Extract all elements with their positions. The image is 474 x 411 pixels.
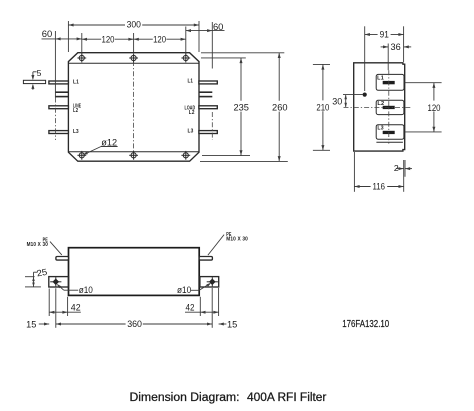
svg-text:60: 60	[213, 22, 224, 33]
svg-text:210: 210	[316, 102, 329, 113]
dim 42 left extension lines	[48, 289, 50, 317]
terminal block L3 side	[376, 125, 404, 140]
svg-text:360: 360	[127, 318, 142, 329]
svg-text:15: 15	[26, 318, 36, 329]
svg-text:ø12: ø12	[101, 137, 117, 147]
extension line from L1 block	[405, 82, 442, 84]
dim 116	[354, 186, 370, 188]
dim 42 right extension lines	[199, 297, 201, 316]
svg-text:120: 120	[102, 35, 115, 46]
front view: bottom mounting flange line	[69, 151, 199, 153]
stud face line / centerline left	[54, 31, 56, 98]
dim 36	[387, 44, 389, 71]
insulator block lines right	[199, 91, 212, 93]
mounting hole bottom-left	[79, 153, 84, 158]
svg-text:15: 15	[227, 318, 237, 329]
extension line from L3 block	[405, 131, 442, 133]
terminal stud L1 left	[49, 81, 69, 84]
insulator block lines left	[55, 91, 68, 93]
dim 91	[365, 34, 378, 36]
svg-text:M10 X 30: M10 X 30	[27, 242, 48, 248]
svg-text:260: 260	[272, 103, 288, 114]
mounting hole top-right	[183, 55, 188, 60]
terminal stud L2 right	[199, 106, 217, 109]
dim 15 left	[39, 323, 49, 325]
svg-text:L3: L3	[377, 126, 383, 132]
dim 15 right	[219, 323, 227, 325]
dim 42 left	[49, 311, 81, 313]
dim 116 extension line	[353, 152, 355, 192]
dim 210	[322, 64, 324, 100]
dim 2 ticks	[403, 160, 405, 192]
front view: top mounting flange line	[69, 62, 199, 64]
dim 260	[278, 53, 280, 101]
svg-text:L1: L1	[377, 75, 384, 81]
dim 235	[240, 58, 242, 101]
svg-text:25: 25	[36, 267, 48, 279]
side view: terminal cover bottom line	[376, 141, 403, 143]
svg-text:300: 300	[127, 20, 141, 31]
PE stud leader line	[343, 94, 363, 96]
terminal block L2 side	[376, 100, 404, 114]
dim 42 right	[185, 311, 219, 313]
mounting hole top-center	[131, 55, 136, 60]
bottom view: filter body	[69, 248, 200, 296]
svg-text:5: 5	[37, 68, 42, 78]
dim 300	[68, 24, 125, 26]
terminal stud L3 left	[49, 131, 69, 134]
dim 120 extension lines over holes	[81, 33, 83, 55]
busbar detail bar far left	[23, 80, 45, 83]
stud face line / centerline right	[211, 22, 213, 69]
svg-text:L2: L2	[189, 110, 195, 116]
svg-text:L3: L3	[188, 129, 194, 135]
dim 120 right segment	[134, 38, 153, 40]
svg-text:ø10: ø10	[79, 285, 93, 295]
terminal stud L2 left	[49, 106, 69, 109]
svg-text:ø10: ø10	[177, 285, 191, 295]
svg-text:L2: L2	[377, 101, 384, 107]
svg-text:120: 120	[428, 102, 441, 113]
dim 120 left segment	[82, 38, 101, 40]
svg-text:42: 42	[71, 303, 81, 313]
dim 210 extension lines	[313, 63, 330, 65]
mounting hole bottom-center	[131, 153, 136, 158]
mounting hole top-left	[79, 55, 84, 60]
mounting foot right	[200, 277, 219, 287]
side view vertical centerline	[388, 70, 390, 143]
svg-text:2: 2	[394, 163, 399, 173]
dim 60 right	[186, 30, 225, 32]
terminal stud L3 right	[199, 131, 217, 134]
PE stud right bottom view	[199, 257, 212, 261]
dim 235 extension lines	[201, 57, 246, 59]
svg-text:M10 X 30: M10 X 30	[226, 237, 248, 243]
side view: body outline with 2mm lip	[354, 63, 405, 151]
svg-text:42: 42	[186, 303, 195, 313]
terminal block L1 side	[376, 74, 404, 90]
svg-text:L2: L2	[73, 108, 78, 114]
terminal bar L1 side	[383, 81, 395, 84]
terminal bar L3 side	[383, 131, 395, 134]
svg-text:400A RFI Filter: 400A RFI Filter	[247, 390, 326, 404]
side view L2 horizontal centerline	[344, 106, 413, 108]
terminal bar L2 side	[383, 106, 395, 109]
dim 30	[345, 95, 347, 108]
PE stud dot	[363, 93, 367, 97]
svg-text:176FA132.10: 176FA132.10	[342, 319, 389, 330]
front view: filter box outline with chamfered corners	[68, 53, 199, 162]
svg-text:116: 116	[372, 181, 385, 192]
svg-text:30: 30	[332, 95, 342, 106]
mounting hole bottom-right	[183, 153, 188, 158]
front view: vertical centerline	[133, 61, 135, 152]
dim 300 extension lines	[67, 21, 69, 52]
dim 91 extension lines	[364, 26, 366, 91]
svg-text:L1: L1	[73, 79, 79, 85]
terminal stud L1 right	[199, 81, 217, 84]
dim 60 left	[42, 38, 82, 40]
svg-text:60: 60	[42, 29, 53, 40]
foot hole right with centerlines	[209, 279, 216, 286]
dim 360	[56, 323, 126, 325]
mounting foot left	[49, 277, 69, 287]
svg-text:120: 120	[153, 35, 166, 46]
svg-text:36: 36	[391, 41, 401, 52]
dim 2	[396, 168, 404, 170]
svg-text:L3: L3	[73, 129, 79, 135]
svg-text:L1: L1	[188, 79, 194, 85]
svg-text:235: 235	[233, 103, 249, 114]
dim 120 side view	[433, 83, 435, 101]
PE stud left bottom view	[56, 257, 69, 261]
foot hole left with centerlines	[53, 279, 60, 286]
dim 260 extension lines	[201, 52, 284, 54]
svg-text:Dimension Diagram:: Dimension Diagram:	[130, 390, 240, 404]
svg-text:91: 91	[380, 29, 389, 40]
